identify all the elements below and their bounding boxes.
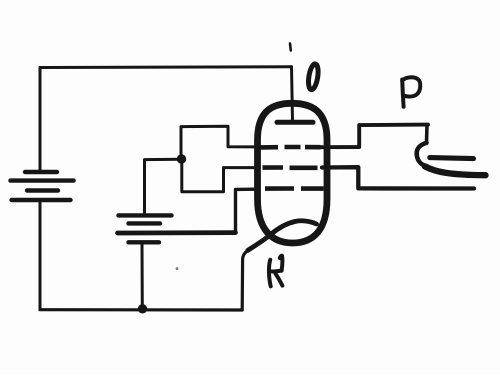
label O (anode) [307, 63, 320, 90]
wire left vertical upper [39, 68, 42, 171]
wire grid row2 exit right, down to phone lower lead [322, 167, 474, 188]
cathode filament arc [248, 221, 317, 251]
wire bottom horizontal [40, 308, 242, 311]
phone cord middle line thick [425, 166, 486, 175]
battery B1 plate short [27, 188, 58, 192]
wire junction to grid row2 (down and over) [182, 159, 256, 192]
label K (cathode) [269, 256, 282, 287]
wire grid row1 exit right, up and over to phone [321, 125, 428, 148]
wire left vertical lower [39, 202, 42, 310]
grid row2 dashes [263, 165, 318, 170]
wire battery B2 top lead to junction [145, 159, 182, 214]
tube envelope [258, 103, 328, 243]
wire battery B2 tap riser to grid row3 [236, 189, 259, 232]
wire cathode lead down to bottom wire [242, 250, 248, 310]
grid row3 dashes [265, 186, 324, 191]
battery B2 plate short bottom [129, 240, 160, 244]
grid row1 dashes [261, 145, 321, 150]
junction dot bottom [138, 304, 147, 313]
stray tick above anode corner [289, 44, 292, 51]
anode plate [277, 120, 313, 125]
wire phone lead down [425, 125, 429, 143]
label P (phone) [402, 77, 420, 106]
wire junction to grid row1 (up and over) [181, 126, 256, 159]
battery B2 plate medium top [119, 213, 172, 217]
battery B1 plate long bottom [12, 198, 71, 202]
wire anode lead down through envelope [292, 67, 293, 121]
phone cord top line [430, 158, 474, 159]
battery B2 plate long with tap wire to grid [118, 230, 236, 235]
wire battery B2 bottom lead [141, 244, 144, 309]
battery B1 plate short top [25, 170, 57, 174]
battery B1 plate long [11, 178, 74, 182]
phone hook curve [417, 143, 427, 166]
junction dot upper [177, 154, 186, 163]
wire top from battery B1 to anode [40, 65, 292, 69]
battery B2 plate short [129, 221, 161, 225]
speck [176, 267, 179, 270]
